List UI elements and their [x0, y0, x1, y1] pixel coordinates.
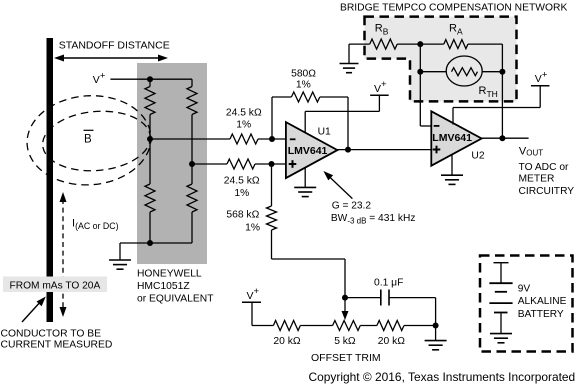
potentiometer 5 kOhm [333, 321, 361, 331]
battery 9V cells [489, 282, 512, 284]
wire RA to right rail [468, 43, 503, 45]
resistor 24.5 kOhm upper [230, 134, 258, 144]
battery 9V terminal tick [494, 262, 509, 264]
junction wiper/cap node [342, 295, 348, 301]
svg-text:LMV641: LMV641 [288, 145, 328, 157]
junction thermistor right node [499, 69, 505, 75]
wire wiper node to capacitor [345, 297, 381, 299]
svg-text:V+: V+ [374, 79, 387, 95]
wire left rail to U2 inverting input [419, 72, 421, 126]
U2 ground pin wire [451, 155, 453, 176]
svg-text:OFFSET TRIM: OFFSET TRIM [311, 352, 381, 364]
wire R 568k to offset trim wiper [271, 230, 273, 259]
svg-text:TO ADC or: TO ADC or [519, 162, 570, 173]
supply V+ (U1) [370, 94, 389, 96]
svg-text:0.1 μF: 0.1 μF [374, 278, 403, 289]
Honeywell bridge sensor body (gray) [137, 63, 207, 264]
wire thermistor to right node [482, 71, 502, 73]
pointer arrow to conductor [22, 300, 43, 323]
ground (offset trim) [425, 340, 447, 342]
svg-text:9V: 9V [518, 284, 531, 295]
U2 non-inverting pin mark [433, 149, 441, 151]
svg-text:or EQUIVALENT: or EQUIVALENT [137, 294, 214, 305]
wire RB to RA [397, 43, 444, 45]
svg-text:1%: 1% [236, 120, 251, 131]
svg-text:Copyright © 2016, Texas Instru: Copyright © 2016, Texas Instruments Inco… [309, 370, 576, 384]
op-amp U1 [286, 122, 338, 178]
svg-text:BRIDGE TEMPCO COMPENSATION NET: BRIDGE TEMPCO COMPENSATION NETWORK [340, 2, 567, 13]
wire top-left resistor to left mid node [149, 115, 151, 140]
svg-text:V+: V+ [535, 69, 548, 85]
wire bridge output 2 to R 24.5k lower [192, 163, 227, 165]
wire bridge top rail [150, 78, 192, 80]
wire potentiometer to R 20k right [360, 325, 377, 327]
magnetic field line B inner (dashed ellipse) [40, 107, 153, 175]
junction bridge top node [147, 76, 153, 82]
junction bridge bottom node [147, 240, 153, 246]
wire bridge output 1 to R 24.5k upper [150, 138, 230, 140]
resistor 24.5 kOhm lower [227, 159, 255, 169]
wire V+ to R 20k left [251, 302, 253, 325]
wire left node to thermistor [420, 71, 446, 73]
wire inverting node up to R 580 [271, 97, 273, 139]
thermistor RTH [446, 56, 482, 86]
junction non-inverting input node [269, 161, 275, 167]
wire U2 output [482, 137, 529, 139]
wire trim node to ground [435, 326, 437, 341]
resistor 568 kOhm [267, 206, 277, 230]
resistor 20 kOhm right [377, 321, 404, 331]
wire R 20k right to ground node [404, 325, 436, 327]
ground (U2) [441, 174, 463, 176]
wire R upper to U1 inverting input [258, 138, 286, 140]
wire ground to RB [349, 43, 370, 45]
resistor 580 Ohm (U1 feedback) [291, 92, 319, 102]
svg-text:24.5 kΩ: 24.5 kΩ [226, 108, 262, 119]
conductor (vertical bus bar) [47, 38, 54, 322]
svg-text:ALKALINE: ALKALINE [518, 296, 567, 307]
svg-text:568 kΩ: 568 kΩ [226, 210, 259, 221]
wire bottom-right resistor to bottom rail [191, 212, 193, 243]
svg-text:20 kΩ: 20 kΩ [378, 336, 405, 347]
svg-text:FROM mAs TO 20A: FROM mAs TO 20A [10, 280, 101, 291]
svg-text:STANDOFF DISTANCE: STANDOFF DISTANCE [59, 39, 170, 51]
U1 power pin wire to V+ [304, 111, 306, 133]
bridge resistor (bottom-right) [191, 164, 193, 184]
svg-text:5 kΩ: 5 kΩ [334, 336, 356, 347]
wire R lower to U1 non-inverting input [255, 163, 286, 165]
wire U1 output to U2 non-inverting input [337, 149, 431, 151]
bridge resistor (top-right) [191, 79, 193, 86]
wire non-inverting node down to R 568k [271, 164, 273, 206]
bridge tempco compensation network box (dashed) [365, 17, 517, 102]
svg-text:HONEYWELL: HONEYWELL [137, 269, 202, 280]
svg-text:20 kΩ: 20 kΩ [273, 336, 300, 347]
junction bridge output node 1 [147, 136, 153, 142]
wire battery terminal [500, 263, 502, 284]
svg-text:U2: U2 [471, 151, 484, 162]
ground (U1) [294, 186, 316, 188]
magnetic field line B outer (dashed ellipse) [24, 92, 154, 189]
junction U2 output node [499, 135, 505, 141]
svg-text:24.5 kΩ: 24.5 kΩ [224, 175, 260, 186]
ground (battery) [490, 333, 512, 335]
resistor 20 kOhm left [273, 321, 300, 331]
svg-text:BW-3 dB = 431 kHz: BW-3 dB = 431 kHz [331, 213, 416, 226]
U2 inverting pin mark [434, 125, 440, 127]
wire V+ to bridge top node [110, 78, 150, 80]
svg-text:1%: 1% [296, 79, 311, 90]
ground (bridge) [109, 259, 131, 261]
svg-text:METER: METER [519, 173, 555, 184]
svg-text:B: B [84, 134, 92, 146]
svg-text:BATTERY: BATTERY [518, 309, 564, 320]
capacitor 0.1 uF [380, 290, 382, 306]
wire R 580 to U1 output [320, 96, 348, 98]
svg-text:CONDUCTOR TO BE: CONDUCTOR TO BE [1, 328, 102, 339]
wire battery to ground [500, 313, 502, 334]
label FROM mAs TO 20A [3, 277, 107, 293]
ground (tempco network) [340, 63, 359, 65]
wire bottom node to ground [120, 242, 150, 244]
svg-text:I(AC or DC): I(AC or DC) [72, 218, 119, 232]
junction U1 output node [345, 147, 351, 153]
svg-text:CIRCUITRY: CIRCUITRY [519, 186, 575, 197]
svg-text:V+: V+ [93, 70, 106, 86]
current flow arrow I (dashed, double headed) [62, 199, 64, 311]
U2 power pin wire to V+ [452, 108, 454, 125]
resistor RA [444, 40, 468, 49]
wire R 20k left to potentiometer [300, 325, 332, 327]
svg-text:VOUT: VOUT [519, 145, 543, 157]
junction trim ground node [433, 323, 439, 329]
potentiometer wiper arrow [344, 298, 346, 313]
standoff distance dimension arrow [57, 57, 165, 59]
svg-text:580Ω: 580Ω [291, 68, 316, 79]
supply V+ (U2) [531, 85, 550, 87]
junction RB-RA node [417, 41, 423, 47]
svg-text:HMC1051Z: HMC1051Z [137, 281, 190, 292]
svg-text:1%: 1% [245, 222, 260, 233]
junction thermistor left node [417, 69, 423, 75]
svg-text:1%: 1% [234, 188, 249, 199]
wire top-right resistor to right mid node [191, 115, 193, 165]
wire capacitor to trim ground node [389, 297, 436, 299]
svg-text:CURRENT MEASURED: CURRENT MEASURED [1, 340, 113, 351]
wire left rail down [419, 44, 421, 72]
resistor RB [370, 39, 398, 49]
junction bridge output node 2 [189, 161, 195, 167]
annotation arrow to U1 [328, 175, 353, 199]
bridge resistor (bottom-left) [149, 139, 151, 184]
svg-text:V+: V+ [247, 286, 260, 302]
svg-text:LMV641: LMV641 [432, 132, 472, 144]
wire bridge bottom rail [150, 242, 192, 244]
U1 inverting pin mark [290, 138, 296, 140]
wire right rail to U2 output node [501, 72, 503, 139]
junction inverting input node [269, 136, 275, 142]
svg-text:U1: U1 [318, 126, 331, 137]
svg-text:G = 23.2: G = 23.2 [332, 200, 372, 211]
wire bottom-left resistor to bottom rail [149, 212, 151, 243]
bridge resistor (top-left) [149, 79, 151, 86]
U1 non-inverting pin mark [289, 163, 297, 165]
op-amp U2 [431, 111, 481, 165]
U1 ground pin wire [304, 168, 306, 188]
battery box (dashed) [480, 256, 573, 352]
